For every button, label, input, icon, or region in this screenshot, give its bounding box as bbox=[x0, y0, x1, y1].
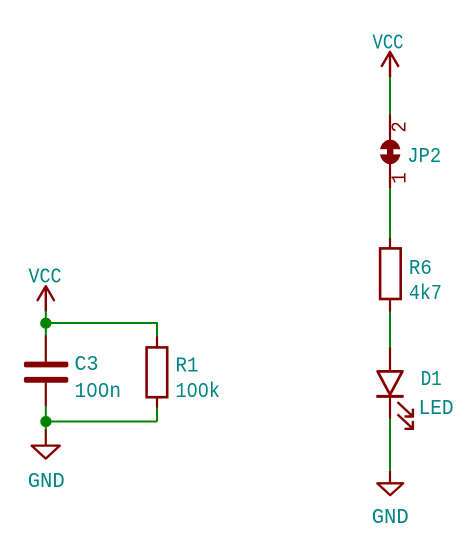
svg-text:VCC: VCC bbox=[373, 32, 404, 55]
wire R1 top vertical bbox=[156, 322, 158, 337]
pin JP2 pin 2 bbox=[389, 115, 391, 142]
svg-text:4k7: 4k7 bbox=[409, 283, 442, 306]
ground symbol GND (right) bbox=[377, 483, 403, 495]
pin D1 cathode bbox=[389, 396, 391, 418]
resistor R6 bbox=[380, 248, 401, 299]
svg-text:100n: 100n bbox=[75, 381, 122, 404]
wire JP2 to R6 bbox=[389, 188, 391, 238]
power symbol VCC (left) bbox=[38, 286, 54, 311]
wire C3 to junction (green stub) bbox=[45, 406, 47, 422]
pin JP2 pin 1 bbox=[389, 163, 391, 188]
pin R6 pin 1 bbox=[389, 238, 391, 249]
svg-text:2: 2 bbox=[389, 121, 412, 133]
jumper JP2 body bbox=[378, 140, 402, 165]
pin D1 anode bbox=[389, 348, 391, 372]
pin R1 pin 1 bbox=[156, 337, 158, 348]
wire R1 bottom vertical bbox=[156, 408, 158, 422]
svg-text:D1: D1 bbox=[421, 369, 442, 392]
capacitor C3 top plate bbox=[24, 362, 68, 368]
svg-text:LED: LED bbox=[419, 398, 454, 421]
wire junction to C3 (green stub) bbox=[45, 323, 47, 336]
pin R6 pin 2 bbox=[389, 299, 391, 312]
svg-text:GND: GND bbox=[372, 507, 409, 530]
wire junction to GND (green stub) bbox=[45, 422, 47, 430]
svg-text:GND: GND bbox=[28, 471, 65, 494]
svg-text:C3: C3 bbox=[75, 354, 99, 377]
diode D1 triangle bbox=[378, 371, 403, 394]
LED emission arrow 2 bbox=[398, 414, 413, 428]
junction (left top node) bbox=[40, 318, 51, 329]
LED emission arrow 1 bbox=[398, 402, 413, 416]
wire R6 to D1 bbox=[389, 312, 391, 348]
wire VCC stub to junction (left) bbox=[45, 311, 47, 323]
svg-text:1: 1 bbox=[389, 172, 412, 184]
pin R1 pin 2 bbox=[156, 397, 158, 407]
pin C3 pin 1 bbox=[45, 336, 47, 362]
capacitor C3 bottom plate bbox=[24, 377, 68, 383]
svg-text:R1: R1 bbox=[176, 356, 199, 379]
ground symbol GND (left) bbox=[32, 446, 60, 459]
svg-text:VCC: VCC bbox=[29, 267, 62, 290]
svg-text:R6: R6 bbox=[409, 258, 432, 281]
resistor R1 bbox=[147, 347, 168, 397]
wire D1 to GND bbox=[389, 419, 391, 471]
power symbol VCC (right) bbox=[382, 52, 398, 77]
diode D1 cathode bar bbox=[376, 395, 403, 398]
svg-text:JP2: JP2 bbox=[407, 146, 441, 169]
pin C3 pin 2 bbox=[45, 383, 47, 406]
wire top horizontal (junction to R1 branch) bbox=[46, 322, 157, 324]
wire bottom horizontal (R1 branch to junction) bbox=[46, 421, 157, 423]
ground symbol stem (right) bbox=[389, 471, 391, 483]
svg-text:100k: 100k bbox=[176, 381, 221, 404]
junction (left bottom node) bbox=[40, 416, 51, 427]
ground symbol stem (left) bbox=[45, 430, 47, 446]
wire VCC to JP2 bbox=[389, 77, 391, 115]
